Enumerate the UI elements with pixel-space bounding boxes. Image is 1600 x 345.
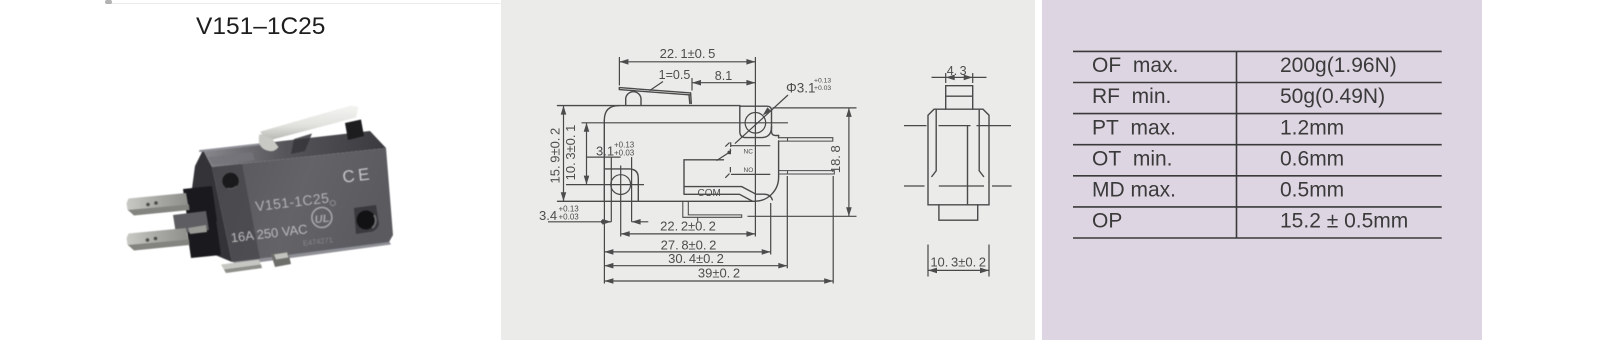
dims left extension — [603, 201, 605, 283]
side chain line lower — [904, 185, 1012, 187]
dim 3.1 shelf line — [587, 156, 621, 158]
table row line 7 — [1073, 237, 1442, 239]
table row line 3 — [1073, 113, 1442, 115]
side view body outline — [928, 109, 989, 205]
arrows side dim 10.3 — [928, 268, 937, 274]
top-left speck — [105, 0, 112, 4]
lever shadow on body — [291, 134, 312, 155]
side hole — [357, 211, 376, 230]
front face left shade — [212, 164, 260, 262]
lever right bent end — [689, 93, 691, 104]
lever hinge curl — [626, 92, 641, 106]
top face molded step — [208, 152, 255, 165]
terminal tab middle — [173, 211, 209, 234]
arrows dim 39 — [604, 278, 613, 284]
arrows dim 22.2 — [621, 231, 630, 237]
side view bottom step — [939, 205, 978, 220]
NO contact tick — [729, 167, 731, 172]
dim 3.1 left vertical — [610, 157, 612, 222]
dim 8.1 left extension — [691, 78, 693, 91]
pivot hole vertical center line / extension — [620, 166, 622, 237]
side hole ring highlight — [372, 215, 376, 228]
dim 10.3 line — [586, 123, 588, 185]
bottom foot right pin — [274, 253, 289, 260]
side hole patch — [354, 205, 379, 234]
dim 18.8 line — [848, 108, 850, 216]
arrows dim 3.1 — [602, 219, 611, 225]
NC contact tick — [729, 149, 731, 155]
dim 18.8 top extension — [773, 107, 857, 109]
side dim 10.3 line — [928, 269, 989, 271]
svg-text:15.2 ± 0.5mm: 15.2 ± 0.5mm — [1280, 210, 1408, 233]
arrow phi3.1 leader — [761, 107, 771, 117]
pivot boss outline — [604, 169, 638, 201]
side view inner left line — [932, 109, 936, 176]
table column divider — [1236, 51, 1238, 238]
dim 3.1 right vertical — [631, 157, 633, 222]
switch top face — [203, 131, 386, 167]
COM bent terminal — [683, 201, 742, 221]
table row line 2 — [1073, 82, 1442, 84]
lavender table panel — [1042, 0, 1482, 340]
title V151-1C25 — [196, 15, 325, 40]
bottom foot left shade — [224, 265, 262, 274]
bottom edge sheen — [233, 241, 391, 266]
svg-text:200g(1.96N): 200g(1.96N) — [1280, 54, 1397, 77]
terminal tab lower edge — [128, 240, 190, 251]
terminal tab upper holes — [146, 203, 150, 207]
arrows dim 30.4 — [604, 263, 613, 269]
arrows dim 15.9 — [561, 106, 567, 115]
arrows dim 27.8 — [604, 249, 613, 255]
dim 30.4 right extension — [786, 176, 788, 268]
top rear edge highlight — [200, 144, 262, 151]
terminal base lower — [186, 220, 221, 258]
dim 30.4 line — [604, 265, 787, 267]
svg-text:MD max.: MD max. — [1092, 179, 1176, 202]
blade spring squiggle — [725, 142, 730, 147]
dim 22.2 line — [621, 233, 756, 235]
marking UL logo — [311, 206, 333, 228]
side view mid vertical line — [967, 126, 969, 205]
NC terminal — [779, 138, 833, 141]
faint top line left section — [106, 3, 502, 4]
dim 39 right extension — [832, 176, 834, 284]
bottom foot right — [271, 252, 291, 268]
body top edge + 15.9 top extension — [558, 105, 741, 107]
side view plunger — [946, 86, 973, 110]
terminal tab middle edge — [188, 225, 207, 234]
dim 22.1 line — [619, 61, 755, 63]
top hole vertical center line / extension — [754, 57, 756, 237]
table row line 5 — [1073, 175, 1442, 177]
table row line 1 — [1073, 50, 1442, 52]
svg-text:0.6mm: 0.6mm — [1280, 147, 1344, 170]
arrows dim 8.1 — [692, 80, 701, 86]
dim 27.8 right extension — [770, 203, 772, 255]
svg-text:1.2mm: 1.2mm — [1280, 116, 1344, 139]
side dim 4.3 extensions — [946, 73, 973, 83]
svg-text:OT min.: OT min. — [1092, 147, 1173, 170]
hinge block — [345, 120, 364, 141]
arrows dim 22.1 — [619, 59, 628, 65]
lever blade — [619, 88, 690, 95]
arrows dim 10.3 — [584, 123, 590, 132]
blade — [717, 150, 732, 160]
lever hinge curl — [259, 134, 279, 151]
switch front face — [212, 148, 393, 262]
top hole horizontal center line — [582, 122, 789, 124]
arrows dim 4.3 — [946, 75, 955, 81]
terminal base upper — [183, 186, 217, 224]
body top-left corner arc — [604, 106, 619, 121]
dim 22.1 left extension — [618, 57, 620, 86]
body right edge segments — [778, 136, 780, 177]
internal cavity outline — [684, 160, 772, 202]
side chain line upper — [904, 125, 1011, 127]
dim 39 line — [604, 280, 833, 282]
blade pivot dot — [727, 151, 731, 155]
bottom foot left — [221, 260, 262, 274]
dim 27.8 line — [604, 251, 770, 253]
dim 3.4 junction dot — [601, 220, 606, 225]
side view inner right line — [979, 109, 983, 176]
body bottom-right corner arc — [754, 177, 779, 202]
NO squiggle — [725, 174, 729, 178]
terminal tab lower — [127, 228, 190, 250]
marking R circle — [330, 200, 336, 206]
svg-text:OP: OP — [1092, 210, 1122, 233]
dim 18.8 bottom extension — [748, 215, 857, 217]
body bottom edge + 3.4 top extension — [558, 200, 755, 202]
lever arm — [261, 106, 359, 142]
terminal tab lower holes — [146, 238, 150, 242]
arrows dim 18.8 — [846, 108, 852, 117]
dim 8.1 line — [692, 82, 755, 84]
pivot hole circle — [611, 175, 631, 195]
front pivot hole dot — [222, 173, 238, 189]
dim 3.1 arrow tails — [603, 221, 611, 223]
front pivot hole highlight — [228, 186, 237, 189]
side dim 10.3 extensions — [928, 245, 989, 277]
svg-text:0.5mm: 0.5mm — [1280, 179, 1344, 202]
switch left side face — [191, 150, 232, 262]
dim 3.4 line — [548, 221, 603, 223]
top hole circle — [745, 113, 766, 134]
leader 1=0.5 — [650, 82, 663, 91]
svg-text:OF max.: OF max. — [1092, 54, 1178, 77]
table row line 4 — [1073, 144, 1442, 146]
svg-text:50g(0.49N): 50g(0.49N) — [1280, 85, 1385, 108]
gray drawing panel — [501, 0, 1035, 340]
NO terminal — [779, 171, 835, 174]
table row line 6 — [1073, 206, 1442, 208]
svg-text:RF min.: RF min. — [1092, 85, 1171, 108]
svg-text:PT max.: PT max. — [1092, 116, 1176, 139]
body left edge — [603, 120, 605, 201]
plunger boss outline — [740, 106, 772, 137]
NC contact line — [731, 145, 770, 147]
pivot hole horizontal center line — [566, 184, 644, 186]
boss step to NC terminal — [772, 127, 779, 136]
terminal tab upper — [127, 193, 190, 215]
side dim 4.3 line — [932, 76, 987, 78]
leader phi3.1 — [735, 95, 788, 144]
NO contact line — [731, 173, 770, 175]
dim 15.9 line — [563, 106, 565, 202]
terminal tab upper edge — [128, 205, 190, 216]
